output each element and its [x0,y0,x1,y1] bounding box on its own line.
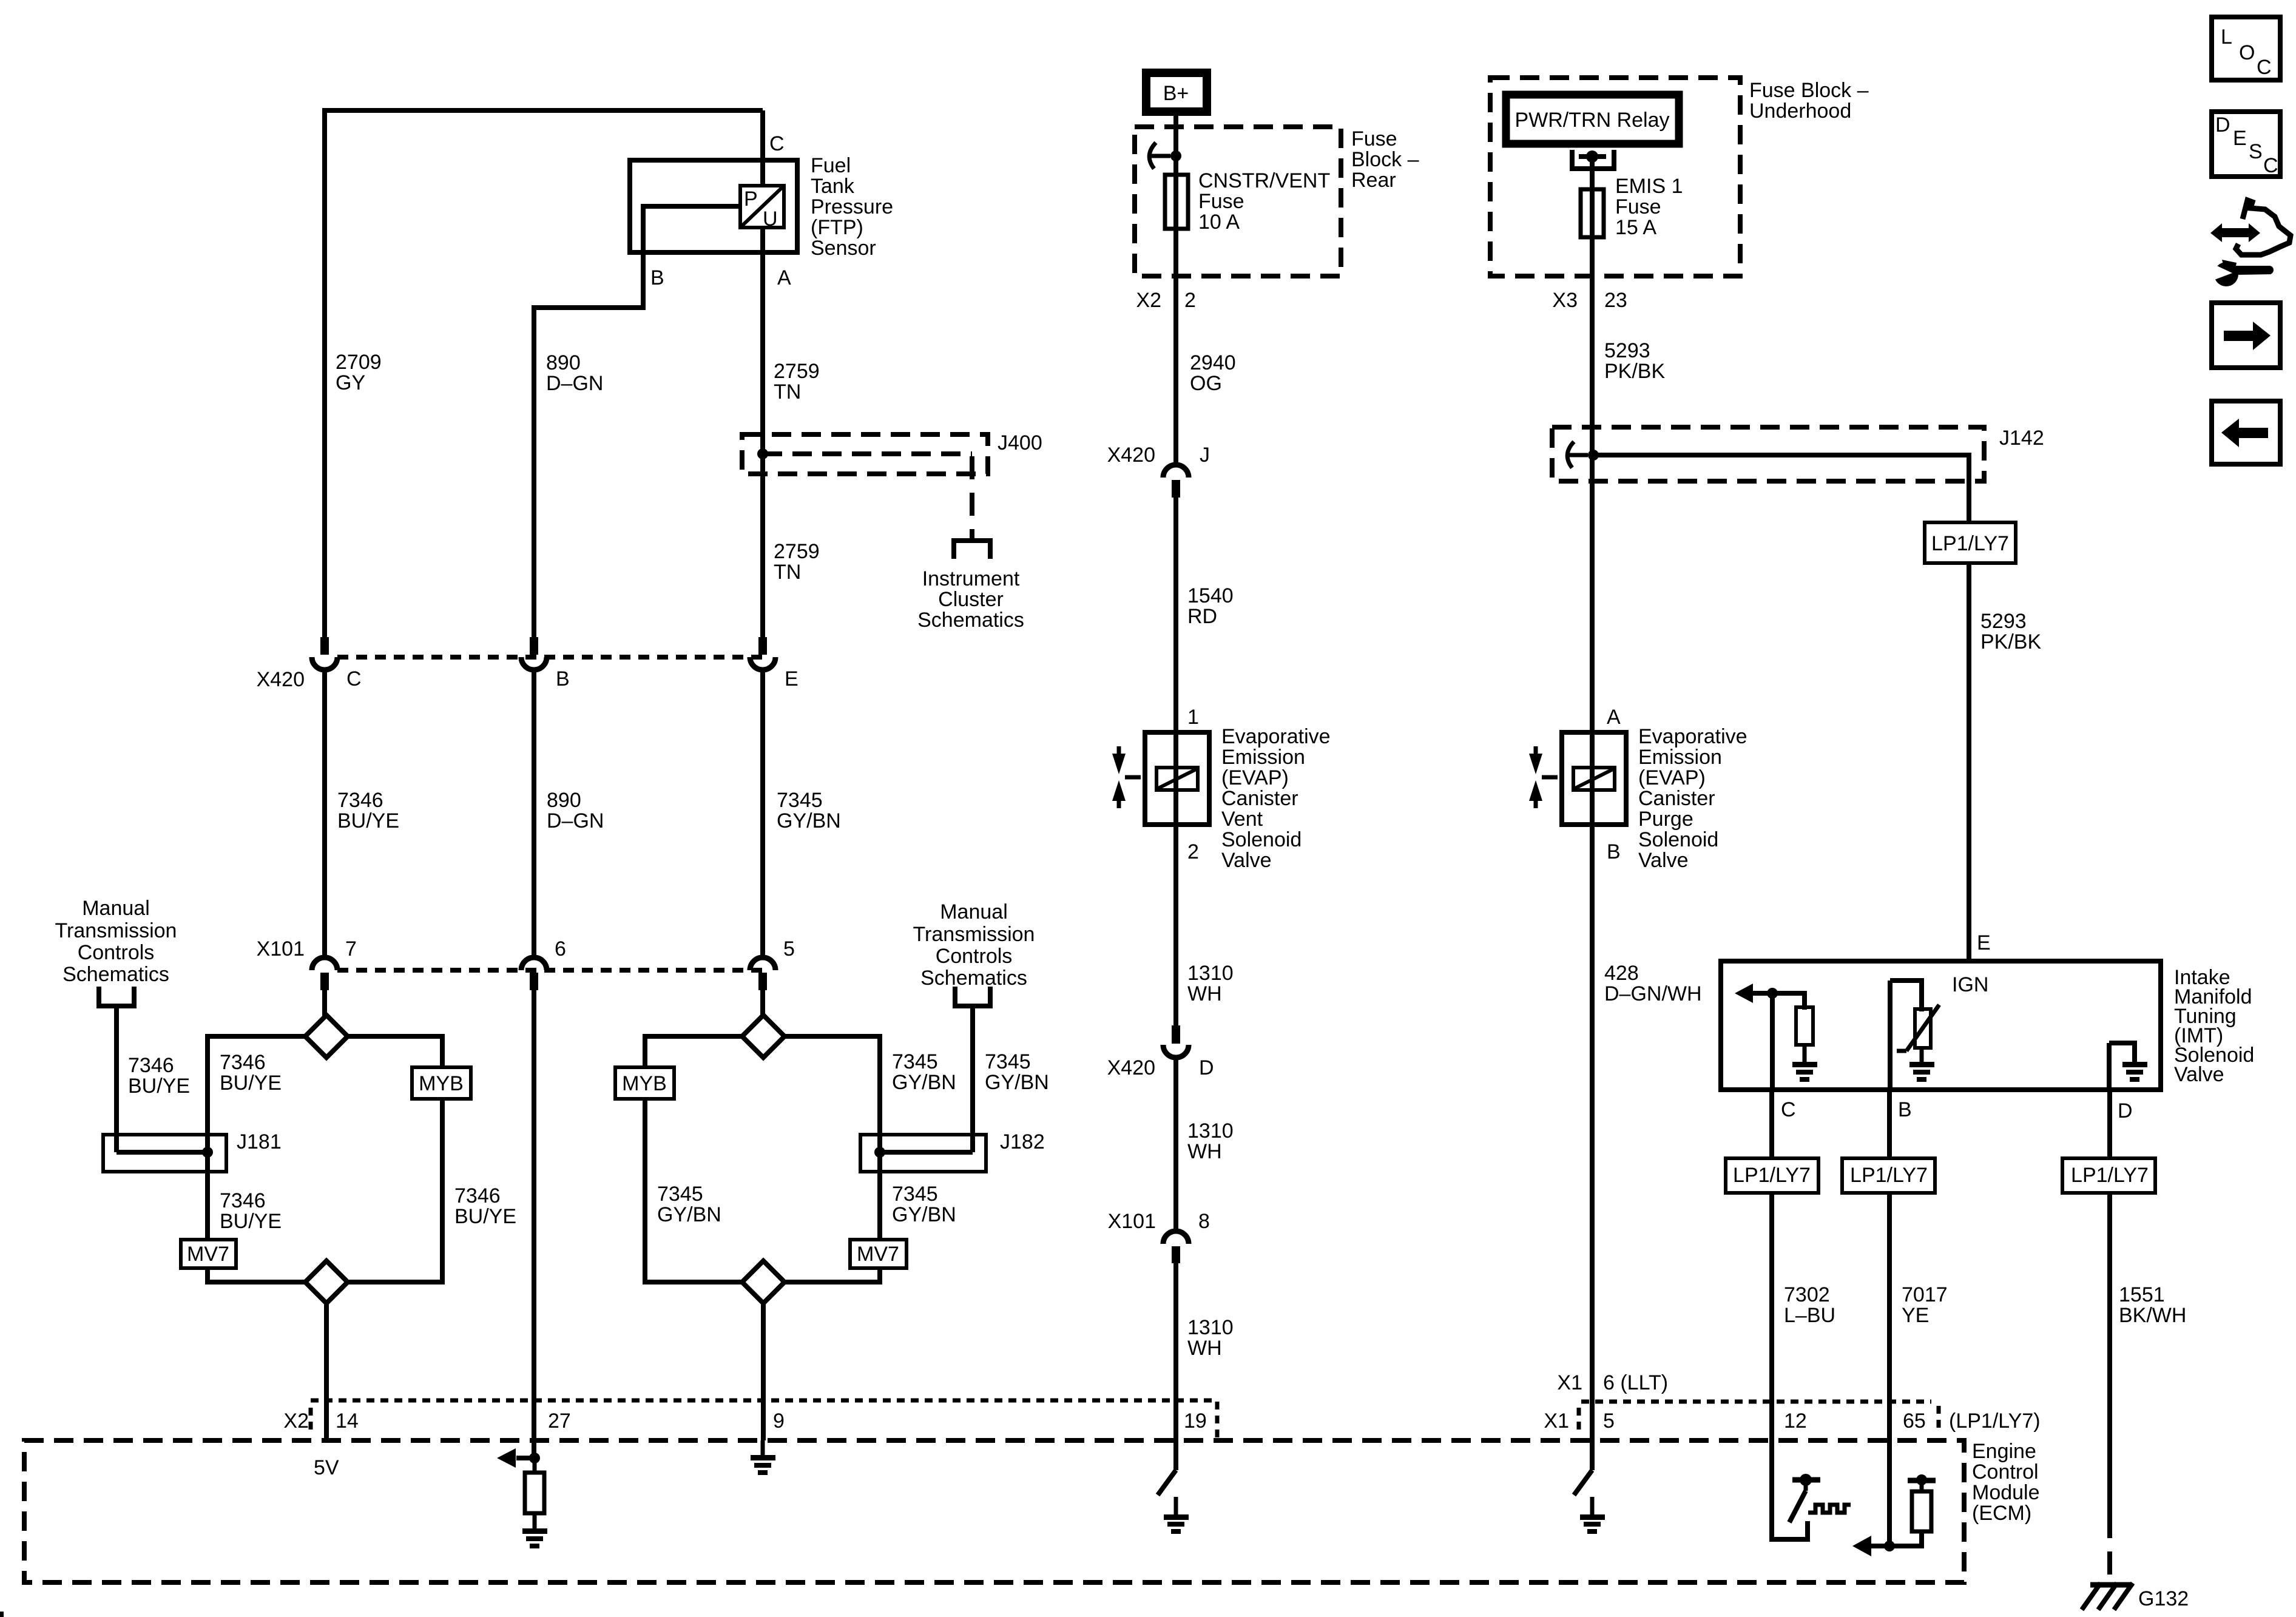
wire LP B to ECM pin 65 [1887,1193,1892,1546]
svg-text:L: L [2221,25,2232,49]
FTP sensor name label [811,154,893,260]
svg-text:BU/YE: BU/YE [220,1210,282,1233]
svg-text:GY: GY [336,371,365,394]
svg-text:1310: 1310 [1187,1316,1234,1339]
svg-text:BU/YE: BU/YE [337,809,399,832]
svg-text:Emission: Emission [1638,746,1722,769]
label 7346 BU/YE right branch [454,1184,516,1228]
ground pin 5 [1580,1497,1605,1534]
label 7345 GY/BN right branch [892,1050,956,1094]
svg-text:14: 14 [336,1409,359,1433]
svg-text:Transmission: Transmission [55,919,177,942]
wire LP D ground feed [2107,1193,2112,1515]
svg-text:LP1/LY7: LP1/LY7 [1931,532,2009,555]
junction dot IMT C [1767,988,1778,999]
pin 65 sense bar [1908,1474,1936,1485]
svg-text:B: B [1607,840,1621,863]
EVAP canister vent solenoid valve [1145,732,1209,825]
svg-text:D–GN: D–GN [546,372,603,395]
svg-text:X1: X1 [1544,1409,1569,1433]
svg-text:C: C [769,132,785,155]
label 7345 GY/BN mid [777,789,841,832]
wire IMT pin B internal [1890,981,1922,1092]
svg-text:7302: 7302 [1784,1283,1830,1306]
splice diamond left top [305,1015,348,1058]
svg-text:890: 890 [546,351,581,374]
X101 connector row dashed line [337,968,763,973]
arrow pin 27 [497,1448,535,1468]
connector X101 6 [521,957,547,990]
svg-text:PK/BK: PK/BK [1604,360,1665,383]
instrument cluster schematics label [917,567,1024,632]
svg-text:Canister: Canister [1638,787,1715,810]
clip symbol rear fuse feed [1149,143,1170,169]
svg-text:BU/YE: BU/YE [454,1205,516,1228]
wire to splice diamond D1 [322,990,327,1017]
ECM dashed box [24,1440,1964,1582]
svg-text:23: 23 [1604,289,1627,312]
svg-text:GY/BN: GY/BN [657,1203,721,1226]
svg-text:1310: 1310 [1187,1119,1234,1143]
EVAP vent valve label [1221,725,1331,872]
label 1310 WH third [1187,1316,1234,1360]
svg-text:LP1/LY7: LP1/LY7 [2071,1164,2149,1187]
svg-text:Cluster: Cluster [938,588,1004,611]
svg-text:Fuse: Fuse [1351,127,1397,150]
J400 junction dashed box [742,434,988,474]
svg-text:7346: 7346 [128,1054,174,1077]
wire 7346 BU/YE mid [322,669,327,959]
J182 splice wire [880,1150,973,1155]
svg-text:D: D [1199,1056,1214,1079]
X3 pin 23 labels [1552,289,1627,312]
junction dot pin 27 [529,1453,540,1463]
splice diamond right top [742,1015,785,1058]
svg-text:D: D [2118,1099,2133,1122]
svg-text:2759: 2759 [774,540,820,563]
IMT solenoid valve box [1721,961,2161,1090]
svg-text:1551: 1551 [2119,1283,2165,1306]
svg-text:J181: J181 [237,1130,282,1153]
LP1/LY7 box B [1842,1158,1935,1193]
svg-text:PK/BK: PK/BK [1980,630,2041,653]
svg-text:GY/BN: GY/BN [985,1071,1049,1094]
svg-text:X1: X1 [1557,1371,1582,1394]
connector X101 7 [312,957,337,990]
MV7 option box left [181,1240,236,1268]
svg-text:Fuel: Fuel [811,154,851,177]
svg-text:G132: G132 [2138,1587,2189,1610]
dotted terminator X2 [309,1408,313,1434]
label 1310 WH second [1187,1119,1234,1163]
wire left branch 7346 BU/YE [208,1036,306,1282]
PWM signal symbol [1808,1505,1851,1513]
svg-text:Schematics: Schematics [62,963,169,986]
switch pin 19 [1158,1470,1176,1495]
svg-text:10 A: 10 A [1198,211,1240,234]
MYB option box left [412,1067,471,1099]
ground pin 27 [522,1513,547,1548]
svg-text:2: 2 [1187,840,1199,863]
wire FTP supply top horizontal 2709 GY [325,108,763,113]
svg-text:Rear: Rear [1351,169,1396,192]
DESC icon [2212,112,2280,177]
svg-text:MYB: MYB [419,1072,464,1095]
svg-text:(EVAP): (EVAP) [1638,766,1706,789]
svg-text:Engine: Engine [1972,1440,2036,1463]
wire pin C drop [760,110,765,188]
wire relay to EMIS fuse [1590,157,1595,239]
off-page connector instrument cluster [951,541,993,559]
ground pin 9 [751,1440,775,1475]
X420 D labels [1107,1056,1214,1079]
svg-text:J400: J400 [998,431,1042,454]
svg-text:19: 19 [1184,1409,1207,1433]
svg-text:D–GN/WH: D–GN/WH [1604,982,1702,1005]
svg-text:Fuse Block –: Fuse Block – [1749,79,1869,102]
ECM label [1972,1440,2040,1525]
off-page connector manual transmission left [96,987,137,1006]
J181 splice box [103,1135,226,1172]
wire IMT B to LP1/LY7 [1887,1090,1892,1162]
svg-text:27: 27 [548,1409,571,1433]
valve symbol purge [1529,746,1558,808]
EVAP canister purge solenoid valve [1562,732,1626,825]
svg-text:L–BU: L–BU [1784,1304,1835,1327]
svg-text:BU/YE: BU/YE [220,1072,282,1095]
svg-text:5: 5 [783,937,795,960]
svg-text:7345: 7345 [657,1183,703,1206]
label 2759 TN lower [774,540,820,584]
svg-text:E: E [785,667,799,690]
manual transmission controls schematics label left [55,897,177,986]
wire 890 D-GN from pin B [534,206,740,637]
svg-text:Pressure: Pressure [811,195,893,218]
svg-text:Canister: Canister [1221,787,1298,810]
svg-text:TN: TN [774,380,801,403]
svg-text:Sensor: Sensor [811,237,876,260]
label 7017 YE [1902,1283,1948,1327]
svg-text:MV7: MV7 [187,1243,229,1266]
valve symbol vent [1112,746,1141,808]
svg-text:MYB: MYB [622,1072,667,1095]
svg-text:IGN: IGN [1952,973,1988,996]
resistor pin 27 [525,1458,544,1513]
fuse block rear dashed box [1135,127,1341,276]
wire to ECM pin 5 [1590,825,1595,1470]
svg-text:LP1/LY7: LP1/LY7 [1850,1164,1928,1187]
svg-text:J142: J142 [1999,427,2044,450]
svg-text:A: A [1607,706,1621,729]
svg-text:Controls: Controls [936,945,1013,968]
X1 5 labels [1544,1409,1615,1433]
X420 J labels [1107,444,1210,467]
svg-text:890: 890 [547,789,581,812]
wire pin 27 into ECM [532,990,536,1458]
label 7346 BU/YE splice branch [220,1051,282,1095]
wire LP1/LY7 to IMT pin E [1967,563,1971,959]
svg-text:C: C [346,667,362,690]
wire to ECM pin 19 [1173,1263,1178,1470]
svg-text:5: 5 [1603,1409,1615,1433]
connector X101 8 [1163,1231,1189,1263]
wire right branch 7345 GY/BN [783,1036,880,1282]
svg-text:GY/BN: GY/BN [892,1203,956,1226]
J181 splice wire [116,1150,208,1155]
svg-text:C: C [2257,56,2272,79]
svg-text:5293: 5293 [1604,339,1650,362]
svg-text:7017: 7017 [1902,1283,1948,1306]
label 7346 BU/YE [337,789,399,832]
dotted terminator pin 19 [1215,1402,1220,1439]
svg-text:J: J [1200,444,1210,467]
service icon double arrow [2210,223,2260,242]
EVAP purge valve label [1638,725,1747,872]
svg-text:Purge: Purge [1638,808,1693,831]
svg-text:GY/BN: GY/BN [892,1071,956,1094]
wire 2709 GY vertical [322,108,327,637]
clip symbol J142 [1567,442,1588,468]
junction dot J182 [874,1147,885,1158]
svg-text:Fuse: Fuse [1198,190,1244,213]
svg-text:7: 7 [345,937,357,960]
ECM connector dotted line X2 [311,1399,1217,1403]
wire IMT pin D internal [2109,1043,2135,1092]
svg-text:RD: RD [1187,605,1217,628]
wire to ECM pin 9 [761,1303,766,1440]
CNSTR/VENT fuse label [1198,169,1330,234]
svg-text:7346: 7346 [220,1051,266,1074]
connector X101 5 [750,957,775,990]
svg-text:WH: WH [1187,982,1222,1005]
svg-text:X2: X2 [1136,289,1161,312]
ECM connector dotted line X1 [1581,1400,1931,1404]
ground IMT C [1792,1045,1817,1082]
resistor IMT C [1796,1007,1813,1045]
forward arrow icon [2212,303,2280,368]
label 1551 BK/WH [2119,1283,2186,1327]
wire to splice diamond D3 [760,990,765,1017]
svg-text:WH: WH [1187,1140,1222,1163]
PWR/TRN relay box [1506,95,1679,144]
svg-text:D: D [2215,113,2230,137]
svg-text:E: E [2233,127,2247,150]
X2 pin 2 labels [1136,289,1196,312]
label 5293 PK/BK [1604,339,1665,383]
wire 7345 GY/BN mid [760,669,765,959]
CNSTR/VENT fuse [1165,175,1188,229]
wire fuse to EVAP purge valve [1590,239,1595,827]
junction dot J400 [757,448,768,459]
svg-text:J182: J182 [1000,1130,1045,1153]
EMIS 1 fuse label [1615,175,1683,239]
connector X420 B [521,637,547,670]
MYB option box right [615,1067,674,1099]
label 1540 RD [1187,584,1234,628]
X101 8 labels [1108,1210,1210,1233]
fuse block rear label [1351,127,1419,192]
svg-text:1540: 1540 [1187,584,1234,607]
stray mark bottom left [0,1612,4,1617]
svg-text:Block –: Block – [1351,148,1419,171]
svg-text:Evaporative: Evaporative [1221,725,1331,748]
svg-text:Vent: Vent [1221,808,1263,831]
wire 2759 TN from pin A [760,228,765,637]
svg-text:B: B [556,667,570,690]
svg-text:X101: X101 [257,937,305,960]
svg-text:B+: B+ [1163,82,1189,105]
svg-text:1: 1 [1187,706,1199,729]
junction dot pin 65 [1884,1541,1895,1551]
svg-text:C: C [2263,154,2278,177]
J182 splice box [860,1135,986,1172]
svg-text:7345: 7345 [985,1050,1031,1073]
svg-text:15 A: 15 A [1615,216,1656,239]
wire off-page to J181 [114,1006,119,1152]
svg-text:LP1/LY7: LP1/LY7 [1733,1164,1811,1187]
wire IMT D to LP1/LY7 [2107,1090,2112,1162]
svg-text:2: 2 [1184,289,1196,312]
svg-text:X3: X3 [1552,289,1578,312]
G132 chassis ground [2082,1583,2133,1610]
junction dot J181 [202,1147,213,1158]
svg-text:GY/BN: GY/BN [777,809,841,832]
wire 890 D-GN mid [532,669,536,959]
svg-text:(FTP): (FTP) [811,216,863,239]
svg-text:Instrument: Instrument [922,567,1020,590]
X1 6 (LLT) labels [1557,1371,1668,1394]
connector X420 D [1163,1025,1189,1058]
svg-text:Control: Control [1972,1460,2039,1484]
svg-text:Valve: Valve [2174,1063,2224,1086]
pin 12 switch [1789,1474,1820,1522]
svg-text:7345: 7345 [892,1050,938,1073]
svg-text:U: U [763,208,778,231]
label 1310 WH [1187,962,1234,1005]
svg-text:Schematics: Schematics [917,609,1024,632]
wire to ECM pin 14 [324,1303,329,1440]
svg-text:6: 6 [555,937,566,960]
svg-text:PWR/TRN Relay: PWR/TRN Relay [1514,109,1669,132]
svg-text:X420: X420 [257,668,305,691]
connector X420 J [1163,465,1189,498]
wire off-page to J182 [970,1006,975,1152]
wire left branch 7345 GY/BN [645,1036,743,1282]
label 2940 OG [1190,351,1236,395]
svg-text:(EVAP): (EVAP) [1221,766,1289,789]
svg-text:TN: TN [774,561,801,584]
LOC icon [2212,17,2280,80]
junction dot rear fuse [1170,150,1181,161]
svg-text:OG: OG [1190,372,1222,395]
dashed wire to G132 [2107,1515,2112,1582]
label 7345 GY/BN below J182 [892,1183,956,1226]
svg-text:8: 8 [1198,1210,1210,1233]
svg-text:E: E [1977,931,1991,954]
wire to X101 8 [1173,1057,1178,1232]
wire B+ to fuse [1173,116,1178,231]
svg-text:65: 65 [1903,1409,1926,1433]
dashed branch wire to instrument cluster [763,451,972,456]
svg-text:Emission: Emission [1221,746,1305,769]
svg-text:Solenoid: Solenoid [1638,828,1718,851]
dotted terminator X1 5 [1577,1408,1581,1434]
label 7346 BU/YE off-page [128,1054,190,1098]
svg-text:Transmission: Transmission [913,923,1035,946]
relay output bracket [1570,150,1616,169]
wire LP C to ECM pin 12 [1769,1193,1774,1440]
svg-text:Controls: Controls [78,941,155,964]
wire IMT pin C internal [1772,993,1805,1092]
fuse block underhood label [1749,79,1869,123]
svg-text:Valve: Valve [1638,849,1689,872]
svg-text:7346: 7346 [454,1184,501,1207]
label 7302 L-BU [1784,1283,1835,1327]
svg-text:D–GN: D–GN [547,809,604,832]
connector X420 C [312,637,337,670]
branch wire J142 to LP1/LY7 [1593,455,1969,522]
svg-text:YE: YE [1902,1304,1929,1327]
svg-text:12: 12 [1784,1409,1807,1433]
svg-text:EMIS 1: EMIS 1 [1615,175,1683,198]
svg-text:7345: 7345 [892,1183,938,1206]
svg-text:2940: 2940 [1190,351,1236,374]
svg-text:Underhood: Underhood [1749,100,1851,123]
svg-text:7346: 7346 [220,1189,266,1212]
wire fuse to X420 J [1173,231,1178,466]
wire IMT C to LP1/LY7 [1769,1090,1774,1162]
switch pin 5 [1574,1470,1592,1495]
svg-text:Valve: Valve [1221,849,1272,872]
label 890 D-GN mid [547,789,604,832]
svg-text:S: S [2249,140,2263,163]
svg-text:Manual: Manual [940,900,1008,923]
J142 junction dashed box [1552,427,1984,481]
svg-text:WH: WH [1187,1337,1222,1360]
svg-text:7345: 7345 [777,789,823,812]
LP1/LY7 box C [1726,1158,1818,1193]
wire to X420 D [1173,825,1178,1025]
service icon wrench [2210,260,2274,286]
wire to EVAP vent valve [1173,498,1178,827]
svg-text:5V: 5V [314,1456,339,1479]
ground IMT D [2122,1062,2147,1082]
svg-text:Solenoid: Solenoid [1221,828,1302,851]
ground IMT B [1909,1048,1934,1082]
svg-text:X101: X101 [1108,1210,1156,1233]
svg-text:(ECM): (ECM) [1972,1502,2031,1525]
svg-text:X420: X420 [1107,1056,1155,1079]
back arrow icon [2212,401,2280,464]
fuse block underhood dashed box [1490,78,1740,276]
off-page connector manual transmission right [953,987,993,1006]
svg-text:MV7: MV7 [857,1243,899,1266]
label 7345 GY/BN off-page [985,1050,1049,1094]
service icon part outline [2236,200,2291,255]
svg-text:BK/WH: BK/WH [2119,1304,2186,1327]
fuel tank pressure sensor box [630,160,797,252]
svg-text:9: 9 [773,1409,785,1433]
arrow IMT C [1735,984,1772,1003]
LP1/LY7 box D [2062,1158,2155,1193]
svg-text:X420: X420 [1107,444,1155,467]
svg-text:7346: 7346 [337,789,383,812]
ground pin 19 [1164,1497,1189,1534]
X420 connector row dashed line [337,655,763,660]
svg-text:B: B [650,266,664,289]
svg-text:C: C [1781,1098,1796,1121]
svg-text:BU/YE: BU/YE [128,1075,190,1098]
